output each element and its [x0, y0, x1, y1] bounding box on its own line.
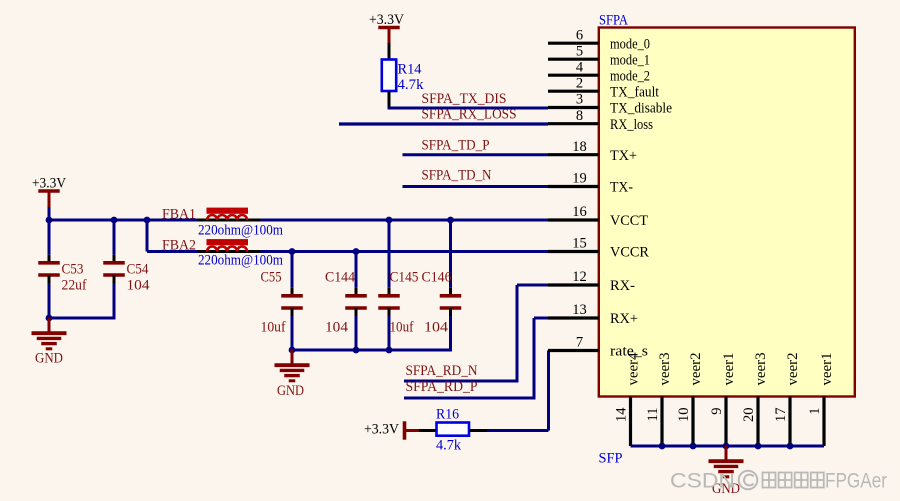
node junction C53/GND: [46, 315, 53, 322]
svg-text:17: 17: [773, 408, 789, 423]
wire VCCT rail: [49, 219, 548, 222]
pin 12 RX-: [548, 269, 635, 294]
wire C54 bottom: [113, 283, 116, 319]
svg-text:veer2: veer2: [688, 353, 704, 386]
pin 9 veer1: [709, 353, 737, 447]
svg-text:R14: R14: [398, 62, 423, 78]
wire FBA1 black pin leads: [198, 219, 261, 222]
pin 18 TX+: [548, 139, 637, 164]
capacitor C53 22uf: [38, 255, 86, 294]
svg-text:11: 11: [645, 408, 661, 422]
inductor FBA1 220ohm@100m: [162, 207, 284, 239]
svg-text:16: 16: [572, 204, 587, 220]
pin 15 VCCR: [548, 236, 649, 261]
node junction +3.3V/C53: [46, 217, 53, 224]
ground GND (mid): [275, 350, 310, 399]
wire FBA2 black pin leads: [198, 250, 261, 253]
pin 14 veer4: [614, 352, 642, 446]
svg-text:GND: GND: [277, 383, 304, 399]
node junction bottom bus: [787, 443, 794, 450]
svg-text:FBA1: FBA1: [162, 207, 196, 223]
svg-text:SFPA_TD_P: SFPA_TD_P: [422, 138, 490, 154]
svg-text:20: 20: [741, 408, 757, 423]
svg-text:4: 4: [576, 59, 584, 75]
svg-text:veer3: veer3: [753, 353, 769, 386]
svg-text:FBA2: FBA2: [162, 238, 196, 254]
svg-text:SFPA_TX_DIS: SFPA_TX_DIS: [422, 91, 507, 107]
resistor R16 4.7k: [436, 407, 469, 454]
node junction C146: [447, 217, 454, 224]
svg-text:2: 2: [576, 75, 583, 91]
watermark CSDN: [670, 470, 887, 493]
pin 2 TX_fault: [548, 75, 659, 100]
wire net SFPA_TD_P: [403, 138, 549, 155]
capacitor C54 104: [103, 255, 150, 294]
wire C55 top: [291, 252, 294, 288]
svg-text:veer1: veer1: [819, 353, 835, 386]
wire FBA2 branch: [146, 220, 149, 252]
pin 5 mode_1: [548, 43, 650, 68]
pin 10 veer2: [676, 353, 704, 447]
svg-text:14: 14: [614, 407, 630, 422]
svg-text:8: 8: [576, 108, 583, 124]
wire +3.3V to VCCT rail: [48, 207, 51, 220]
svg-text:10: 10: [676, 408, 692, 423]
power +3.3V (R14 pull-up): [369, 12, 404, 43]
capacitor C144 104: [325, 270, 367, 336]
svg-text:22uf: 22uf: [62, 278, 87, 294]
svg-text:GND: GND: [35, 351, 63, 367]
svg-text:3: 3: [576, 92, 583, 108]
wire net SFPA_RD_N (RX-): [404, 285, 548, 381]
svg-text:1: 1: [807, 408, 823, 415]
svg-text:104: 104: [127, 278, 151, 294]
svg-text:RX-: RX-: [610, 278, 635, 294]
node junction C145: [386, 217, 393, 224]
node junction C55: [289, 248, 296, 255]
wire C145 bottom: [388, 316, 391, 350]
svg-text:mode_1: mode_1: [610, 52, 650, 68]
svg-text:mode_0: mode_0: [610, 36, 650, 52]
resistor R14 4.7k: [382, 60, 424, 94]
node junction C145 bottom: [386, 347, 393, 354]
pin 19 TX-: [548, 171, 633, 196]
svg-text:5: 5: [576, 43, 583, 59]
svg-text:9: 9: [709, 408, 725, 415]
svg-text:SFPA: SFPA: [599, 13, 628, 29]
svg-text:TX+: TX+: [610, 148, 637, 164]
wire ground bus left: [49, 317, 116, 320]
svg-text:12: 12: [572, 269, 587, 285]
node junction bottom bus: [659, 443, 666, 450]
svg-text:15: 15: [572, 236, 587, 252]
svg-text:VCCT: VCCT: [610, 213, 648, 229]
svg-text:10uf: 10uf: [390, 320, 414, 336]
wire R16 right lead: [469, 429, 487, 432]
svg-text:7: 7: [576, 335, 583, 351]
node junction C144 bottom: [353, 347, 360, 354]
wire ground bus mid: [292, 349, 452, 352]
svg-text:C144: C144: [325, 270, 356, 286]
node junction bottom bus: [723, 443, 730, 450]
wire net SFPA_TD_N: [403, 168, 549, 187]
capacitor C146 104: [422, 270, 462, 336]
power +3.3V (R16): [364, 421, 419, 439]
pin 4 mode_2: [548, 59, 650, 84]
svg-text:+3.3V: +3.3V: [32, 176, 66, 192]
svg-text:19: 19: [572, 171, 587, 187]
node junction FBA2 branch: [144, 217, 151, 224]
wire C146 bottom: [449, 316, 452, 352]
wire R14 top lead: [388, 43, 391, 60]
pin 16 VCCT: [548, 204, 648, 229]
svg-text:TX-: TX-: [610, 180, 633, 196]
wire R14 bottom lead: [388, 91, 391, 108]
svg-text:C54: C54: [127, 262, 150, 278]
svg-text:C145: C145: [390, 270, 419, 286]
svg-text:RX_loss: RX_loss: [610, 117, 653, 133]
wire C53 top: [48, 220, 51, 255]
svg-text:6: 6: [576, 27, 583, 43]
pin 8 RX_loss: [548, 108, 653, 133]
wire net SFPA_TX_DIS: [388, 91, 549, 108]
pin 13 RX+: [548, 302, 638, 327]
wire R16 left lead: [419, 429, 437, 432]
pin 3 TX_disable: [548, 92, 672, 117]
node junction C144: [353, 248, 360, 255]
wire C146 top: [449, 220, 452, 288]
pin 1 veer1: [807, 353, 835, 447]
wire C55 bottom: [291, 316, 294, 350]
svg-text:SFPA_TD_N: SFPA_TD_N: [422, 168, 492, 184]
wire ground bus bottom: [631, 445, 825, 448]
capacitor C55 10uf: [261, 270, 303, 336]
pin 11 veer3: [645, 353, 673, 447]
node junction C54: [111, 217, 118, 224]
svg-text:SFP: SFP: [599, 451, 623, 467]
wire C54 top: [113, 220, 116, 255]
node junction bottom bus: [690, 443, 697, 450]
svg-text:veer2: veer2: [785, 353, 801, 386]
wire net SFPA_RD_P (RX+): [404, 318, 548, 398]
svg-text:veer4: veer4: [626, 352, 642, 386]
svg-text:+3.3V: +3.3V: [364, 422, 399, 438]
svg-text:C55: C55: [261, 270, 282, 286]
op-amp U? : SFP module part SFPA: [599, 13, 855, 397]
svg-text:TX_disable: TX_disable: [610, 101, 672, 117]
svg-text:C53: C53: [62, 262, 84, 278]
svg-text:13: 13: [572, 302, 587, 318]
ground GND (bottom): [709, 446, 744, 497]
svg-text:VCCR: VCCR: [610, 245, 649, 261]
svg-text:18: 18: [572, 139, 587, 155]
wire VCCR rail: [147, 250, 548, 253]
inductor FBA2 220ohm@100m: [162, 238, 284, 269]
svg-text:4.7k: 4.7k: [398, 77, 425, 93]
pin 20 veer3: [741, 353, 769, 447]
svg-text:10uf: 10uf: [261, 320, 286, 336]
wire rate_s net: [487, 351, 549, 431]
capacitor C145 10uf: [378, 270, 418, 336]
power +3.3V (left rail): [32, 176, 66, 208]
svg-text:SFPA_RD_P: SFPA_RD_P: [406, 379, 478, 395]
svg-text:veer3: veer3: [657, 353, 673, 386]
svg-text:C146: C146: [422, 270, 452, 286]
node junction C55/GND: [289, 347, 296, 354]
svg-text:veer1: veer1: [721, 353, 737, 386]
svg-text:RX+: RX+: [610, 311, 638, 327]
pin 7 rate_s: [548, 335, 648, 360]
svg-text:CSDN: CSDN: [670, 470, 735, 493]
ground GND (left): [32, 318, 67, 367]
svg-text:220ohm@100m: 220ohm@100m: [198, 253, 284, 269]
svg-text:SFPA_RX_LOSS: SFPA_RX_LOSS: [422, 107, 517, 123]
svg-text:TX_fault: TX_fault: [610, 84, 659, 100]
svg-text:FPGAer: FPGAer: [825, 470, 887, 493]
wire C53 bottom: [48, 283, 51, 318]
wire C145 top: [388, 220, 391, 288]
pin 6 mode_0: [548, 27, 650, 52]
svg-text:+3.3V: +3.3V: [369, 12, 404, 28]
svg-text:SFPA_RD_N: SFPA_RD_N: [406, 363, 478, 379]
wire C144 bottom: [355, 316, 358, 350]
node junction bottom bus: [755, 443, 762, 450]
svg-text:mode_2: mode_2: [610, 68, 650, 84]
svg-text:R16: R16: [436, 407, 459, 423]
pin 17 veer2: [773, 353, 801, 447]
wire C144 top: [355, 252, 358, 288]
svg-text:4.7k: 4.7k: [436, 438, 462, 454]
svg-text:104: 104: [325, 320, 349, 336]
svg-text:220ohm@100m: 220ohm@100m: [198, 223, 284, 239]
wire net SFPA_RX_LOSS: [339, 107, 548, 125]
svg-text:104: 104: [424, 320, 449, 336]
